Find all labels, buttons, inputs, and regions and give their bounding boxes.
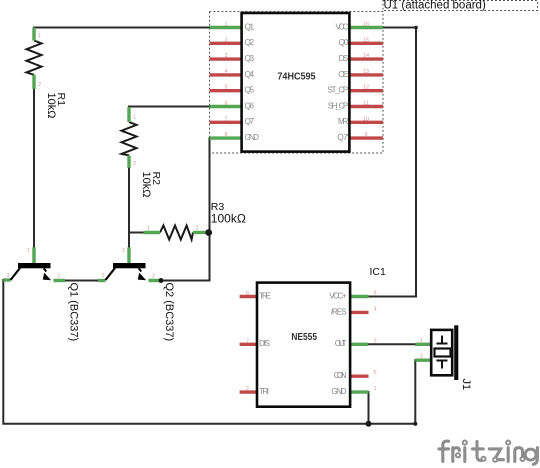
svg-text:1: 1 (420, 338, 423, 344)
svg-text:OUT: OUT (335, 339, 347, 348)
svg-text:3: 3 (373, 338, 376, 344)
svg-text:CON: CON (334, 371, 347, 380)
svg-text:NE555: NE555 (291, 332, 317, 343)
svg-text:Q4: Q4 (245, 70, 255, 79)
svg-text:6: 6 (224, 101, 227, 107)
svg-text:2: 2 (38, 82, 41, 88)
svg-text:2: 2 (152, 274, 155, 280)
svg-text:100kΩ: 100kΩ (211, 211, 246, 225)
svg-text:U1 (attached board): U1 (attached board) (384, 0, 486, 11)
svg-text:1: 1 (373, 386, 376, 392)
svg-text:2: 2 (420, 353, 423, 359)
svg-text:GND: GND (245, 133, 260, 142)
svg-text:OE: OE (338, 70, 349, 79)
svg-text:DS: DS (339, 54, 349, 63)
svg-text:MR: MR (338, 117, 349, 126)
svg-text:Q7: Q7 (245, 117, 255, 126)
svg-text:/RES: /RES (331, 307, 348, 316)
svg-text:Q5: Q5 (245, 86, 255, 95)
svg-text:15: 15 (363, 37, 369, 43)
svg-text:TRE: TRE (259, 291, 272, 300)
svg-text:8: 8 (373, 291, 376, 297)
svg-text:Q6: Q6 (245, 101, 255, 110)
svg-text:74HC595: 74HC595 (277, 72, 316, 83)
svg-text:1: 1 (133, 115, 136, 121)
svg-text:10: 10 (363, 116, 369, 122)
svg-text:16: 16 (363, 22, 369, 28)
svg-text:2: 2 (246, 386, 249, 392)
svg-text:ST_CP: ST_CP (327, 86, 349, 95)
svg-text:10kΩ: 10kΩ (45, 93, 57, 119)
svg-text:VCC+: VCC+ (329, 291, 347, 300)
svg-text:VCC: VCC (335, 22, 348, 31)
svg-text:Q7': Q7' (337, 133, 348, 142)
svg-text:7: 7 (246, 338, 249, 344)
svg-text:13: 13 (363, 69, 369, 75)
svg-text:Q1: Q1 (245, 22, 255, 31)
svg-text:SH_CP: SH_CP (328, 101, 349, 110)
svg-text:8: 8 (224, 132, 227, 138)
svg-text:J1: J1 (460, 379, 472, 391)
svg-text:1: 1 (147, 226, 150, 232)
svg-text:14: 14 (363, 53, 369, 59)
svg-text:Q0: Q0 (339, 38, 349, 47)
svg-text:9: 9 (364, 132, 367, 138)
svg-text:2: 2 (195, 226, 198, 232)
svg-text:11: 11 (363, 101, 369, 107)
svg-text:6: 6 (246, 291, 249, 297)
svg-text:3: 3 (224, 53, 227, 59)
svg-text:Q3: Q3 (245, 54, 255, 63)
svg-text:12: 12 (363, 85, 369, 91)
svg-text:4: 4 (373, 306, 376, 312)
svg-text:DIS: DIS (259, 339, 271, 348)
svg-text:1: 1 (122, 248, 125, 254)
svg-text:IC1: IC1 (370, 266, 387, 278)
svg-text:Q2: Q2 (245, 38, 255, 47)
svg-text:4: 4 (224, 69, 227, 75)
svg-text:5: 5 (373, 370, 376, 376)
svg-text:GND: GND (331, 387, 346, 396)
svg-text:Q2 (BC337): Q2 (BC337) (163, 283, 175, 342)
svg-text:2: 2 (57, 274, 60, 280)
svg-text:2: 2 (133, 161, 136, 167)
svg-text:2: 2 (224, 37, 227, 43)
svg-text:3: 3 (101, 273, 104, 279)
svg-text:5: 5 (224, 85, 227, 91)
svg-text:Q1 (BC337): Q1 (BC337) (68, 283, 80, 342)
svg-text:1: 1 (38, 33, 41, 39)
svg-text:10kΩ: 10kΩ (140, 172, 152, 198)
svg-text:TRI: TRI (259, 387, 269, 396)
svg-text:7: 7 (224, 116, 227, 122)
svg-text:3: 3 (6, 273, 9, 279)
svg-text:1: 1 (224, 22, 227, 28)
svg-text:1: 1 (27, 248, 30, 254)
